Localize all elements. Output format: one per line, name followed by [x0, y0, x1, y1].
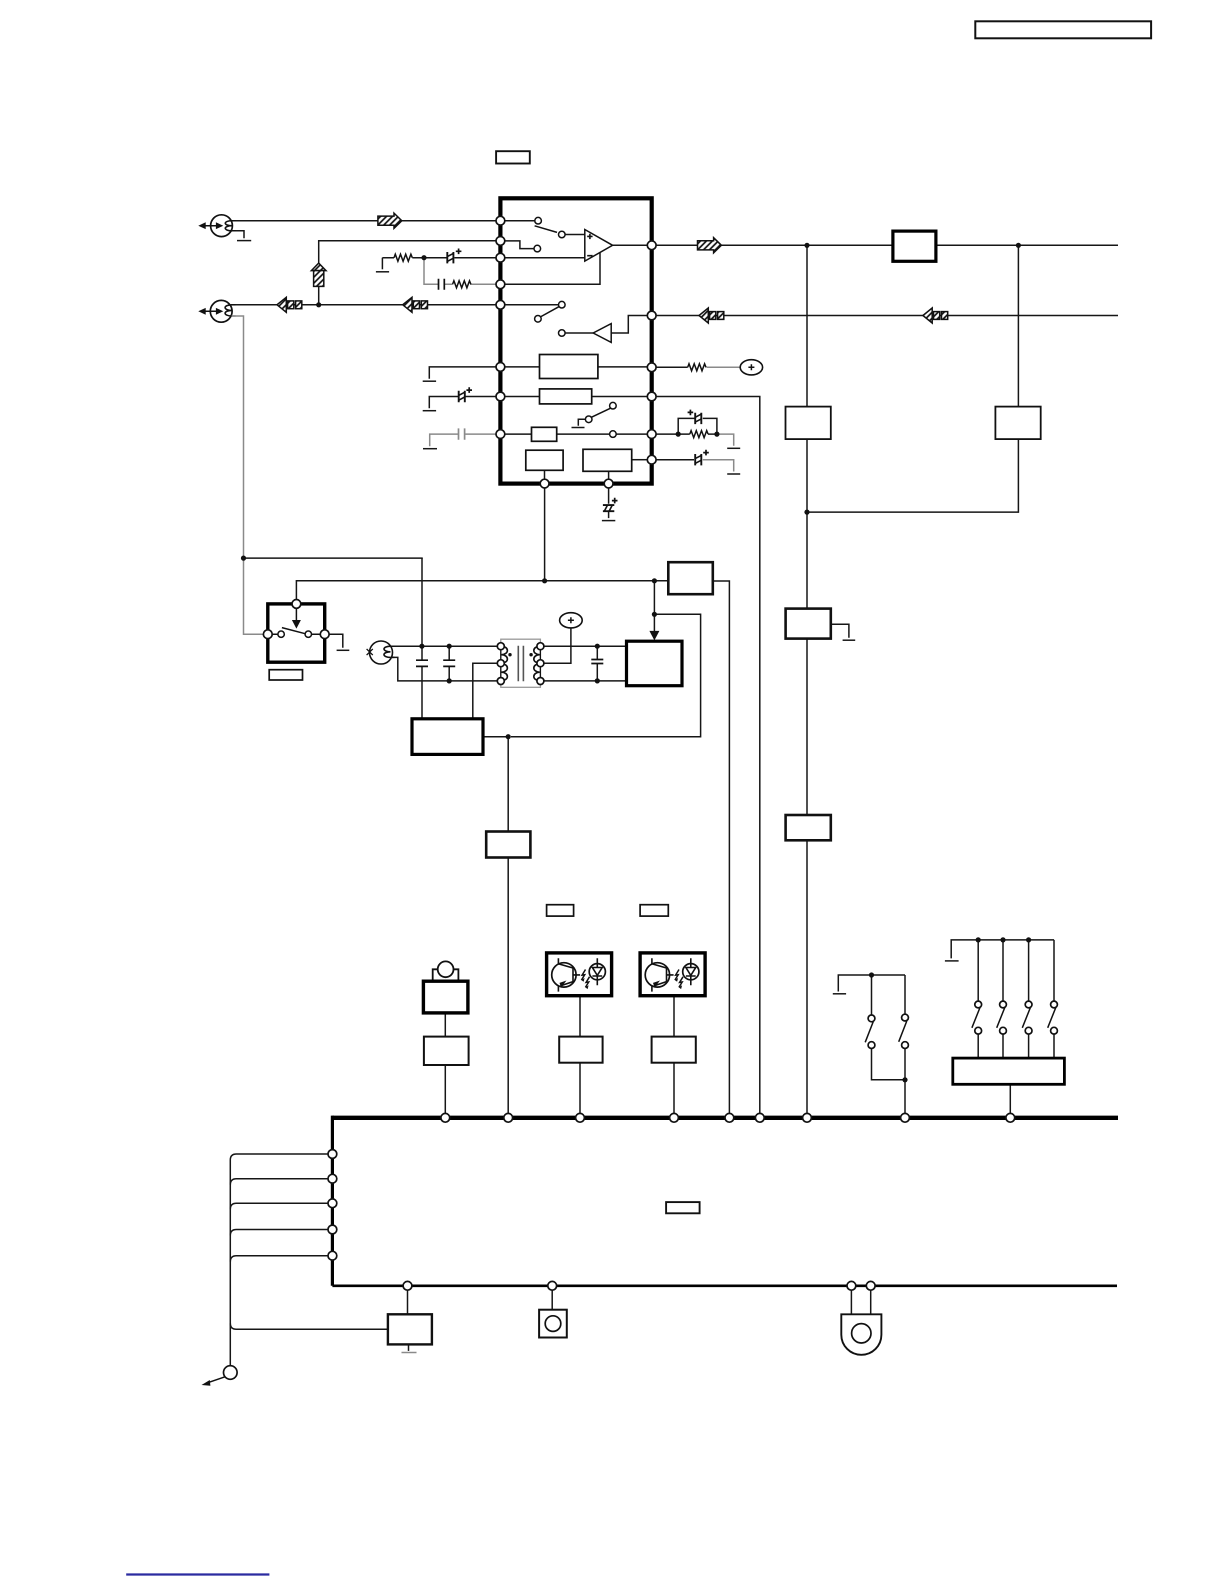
wire box B4 to IC bottom pin	[544, 470, 546, 479]
wire IC bottom pin1 down to hook line	[544, 488, 546, 581]
wire IC pin6 through box B1	[505, 366, 648, 368]
wire junction drop to C2 R2 branch	[424, 258, 496, 285]
wire PCB left pin 2	[230, 1179, 328, 1185]
pin switch SW1b top	[902, 1014, 909, 1021]
wire PCB left pin 5	[230, 1256, 328, 1262]
pin bus 7	[803, 1113, 812, 1122]
capacitor C4 at pin8	[459, 428, 465, 439]
ground G6	[602, 520, 615, 522]
buffer U2 triangle	[593, 324, 611, 343]
wire IC pin2 bent to switch S1 lower throw	[505, 241, 534, 249]
box DB2 surge	[412, 719, 483, 755]
pin hook switch left	[263, 630, 272, 639]
pin bus 5	[725, 1113, 734, 1122]
wire switch S1 pole to op-amp U1 + input	[565, 234, 585, 236]
box B5	[583, 449, 632, 471]
junction output line col2	[1016, 243, 1021, 248]
supply ellipse E2	[560, 613, 583, 628]
pin IC right 1	[647, 241, 656, 250]
junction SW1 rail	[869, 972, 874, 977]
arrow C1 hatched up on node A riser	[311, 263, 326, 286]
harness arrow to external	[202, 1366, 238, 1386]
arrow B2 hatched left on RING line	[403, 297, 428, 312]
ground G1	[237, 240, 251, 242]
junction hook line 2	[652, 578, 657, 583]
resistor R2	[453, 281, 471, 288]
wire IC pin to RC pair D2 R4	[656, 433, 717, 435]
arrow A2 hatched right on output line	[698, 238, 722, 253]
switch SW2a blade	[972, 1008, 980, 1028]
wire ringer top line to transformer T1	[391, 645, 497, 647]
transformer T1	[501, 639, 541, 687]
wire switch SW1b leads	[904, 975, 906, 1113]
capacitor D1 electrolytic	[447, 249, 461, 264]
wire IC pin8 left through capacitor C4 to ground	[430, 434, 496, 446]
wire vertical through capacitor C1 to diode bridge	[421, 558, 423, 719]
wire ringer bottom line to transformer T1	[391, 657, 497, 681]
capacitor C6	[443, 660, 455, 666]
wire box B5 to IC right pin	[632, 459, 648, 461]
wire switch SW2a leads	[977, 940, 979, 1058]
pin IC bottom 2	[604, 479, 613, 488]
wire switch SW2d leads	[1053, 940, 1055, 1058]
ground G5	[423, 448, 437, 450]
wire IC pin to capacitor D3	[656, 459, 694, 461]
pin PCB left 2	[328, 1174, 337, 1183]
wire node A riser (junction to up-arrow to corner)	[319, 241, 496, 305]
box R5d	[786, 815, 831, 840]
wire TIP line (connector J1 to IC pin 1)	[232, 220, 496, 222]
pin bus 4	[670, 1113, 679, 1122]
wire PCB bottom pin to ground box	[407, 1290, 409, 1314]
pin transformer L1	[497, 643, 504, 650]
pin IC left 4	[496, 280, 505, 289]
junction C6b top	[447, 644, 452, 649]
pin switch SW2b top	[1000, 1001, 1007, 1008]
arrow A1 hatched right on TIP line	[378, 213, 402, 228]
pin switch SW2d bottom	[1051, 1027, 1058, 1034]
pin IC left 5	[496, 300, 505, 309]
junction C7 bottom	[595, 678, 600, 683]
pin hook switch top	[292, 600, 301, 609]
junction C7 top	[595, 644, 600, 649]
wire ground box stub	[408, 1344, 410, 1351]
junction D2R4 right	[714, 432, 719, 437]
pin switch SW2c bottom	[1025, 1027, 1032, 1034]
wire RC to ground	[717, 434, 734, 446]
pin PCB bottom 1	[403, 1281, 412, 1290]
microphone MIC1	[433, 961, 459, 981]
switch SW2c blade	[1022, 1008, 1030, 1028]
pin hook switch right	[320, 630, 329, 639]
wire switch SW1a leads	[872, 975, 906, 1080]
wire connector J2 drop to hook switch	[232, 316, 263, 634]
junction node A	[316, 302, 321, 307]
pin IC right 4	[647, 392, 656, 401]
wire branch at node B to ringer line	[244, 557, 423, 560]
box R5c with ground	[786, 609, 831, 639]
PCB block main board	[332, 1116, 1118, 1286]
wire PCB bottom pins to buzzer BZ1	[851, 1290, 870, 1314]
pin bus 6	[755, 1113, 764, 1122]
pin IC right 3	[647, 363, 656, 372]
wire box R5 to ground	[831, 624, 849, 638]
wire PCB left pin 1 to collector line	[230, 1154, 328, 1366]
wire junction down through box R6 to bus	[507, 737, 509, 1114]
capacitor C7	[591, 660, 603, 664]
junction C6 top	[419, 644, 424, 649]
tick bar of switch S3	[572, 427, 585, 429]
label box N6 top right	[975, 21, 1151, 38]
wire transformer T1 primary center tap to bridge	[473, 663, 498, 719]
wire transformer T1 secondary top to balance box	[544, 645, 627, 647]
wire loop from balance feed to bridge output	[511, 614, 701, 736]
pin switch SW2d top	[1051, 1001, 1058, 1008]
pin IC left 3	[496, 253, 505, 262]
pin PCB left 3	[328, 1199, 337, 1208]
wire IC pin long drop to bus	[656, 397, 760, 1114]
wire capacitor C6 leads	[448, 646, 450, 681]
wire PCB left pin 4	[230, 1230, 328, 1236]
ground G9	[843, 639, 856, 641]
box R5a	[786, 407, 831, 440]
switch SW1b blade	[899, 1021, 907, 1042]
hook switch HS1	[268, 604, 325, 662]
junction D2R4 left	[676, 432, 681, 437]
ground G12	[945, 960, 959, 962]
wire buffer U2 output to IC pin	[611, 316, 647, 334]
box R5b	[995, 407, 1040, 440]
capacitor C3 electrolytic at pin7	[459, 387, 472, 402]
wire op-amp U1 output to IC pin	[613, 244, 648, 246]
supply ellipse E1	[740, 360, 762, 375]
wire R1 to junction to capacitor D1	[382, 257, 496, 259]
ground G10	[337, 649, 350, 651]
connector J2	[198, 300, 235, 322]
resistor R1	[394, 254, 412, 261]
pin IC left 7	[496, 392, 505, 401]
pin switch SW2a top	[975, 1001, 982, 1008]
ringer BZ0	[367, 641, 395, 664]
pin PCB bottom 4	[866, 1281, 875, 1290]
ground G11	[833, 993, 846, 995]
switch SW1a blade	[865, 1022, 873, 1043]
wire IC line 2 to right edge	[656, 315, 1118, 317]
pin switch SW2a bottom	[975, 1027, 982, 1034]
wire IC pin1 to switch S1	[505, 220, 535, 222]
capacitor C1 on ringer drop	[416, 660, 428, 666]
wire op-amp U1 feedback to IC pin4	[505, 253, 600, 285]
footer rule	[126, 1573, 269, 1575]
pin switch SW2b bottom	[1000, 1027, 1007, 1034]
wire IC pin5 to switch S2	[505, 304, 559, 306]
switch S1	[534, 217, 565, 252]
optocoupler PC2	[640, 953, 705, 996]
wire IC pin3 to op-amp U1 - input	[505, 257, 585, 259]
wire transformer T1 secondary bottom to balance box	[544, 680, 627, 682]
wire connector J1 sleeve to ground	[232, 231, 245, 239]
label box N5	[666, 1202, 700, 1213]
arrow B4 hatched left on line 2	[923, 308, 948, 323]
pin switch SW1b bottom	[902, 1042, 909, 1049]
switch S3	[585, 402, 616, 437]
wire RING line (connector J2 to IC pin 5)	[232, 304, 496, 306]
pin bus 1	[441, 1113, 450, 1122]
keypad box KB1	[953, 1058, 1065, 1084]
wire tap to ground box G13	[230, 1323, 388, 1329]
ground G3	[423, 380, 436, 382]
pin PCB left 4	[328, 1225, 337, 1234]
junction node B	[241, 556, 246, 561]
ground G13	[402, 1352, 417, 1354]
label box N4	[640, 905, 668, 916]
wire IC pin7 through box B2	[505, 396, 648, 398]
optocoupler PC1	[547, 953, 612, 996]
pin transformer R2	[537, 660, 544, 667]
pin bus 2	[504, 1113, 513, 1122]
box B1	[540, 355, 598, 379]
box R6	[486, 832, 530, 858]
junction SW2 rail a	[976, 937, 981, 942]
capacitor C5 electrolytic below IC	[603, 498, 618, 511]
wire ground stub of R1 network	[381, 258, 383, 270]
pin switch SW1a bottom	[868, 1042, 875, 1049]
box B3	[532, 427, 557, 441]
wire switch S2 to buffer U2 input	[565, 332, 593, 334]
pin transformer R3	[537, 678, 544, 685]
wire IC pin8 through box B3 and throw circle	[505, 433, 648, 435]
box B2	[540, 389, 592, 404]
pin bus 3	[576, 1113, 585, 1122]
junction SW1 bottom	[902, 1077, 907, 1082]
wire hook switch right pin to ground	[327, 634, 343, 648]
wire supply E2 ellipse to transformer center tap	[544, 628, 571, 663]
box U4	[652, 1037, 696, 1063]
buzzer BZ1	[841, 1314, 881, 1355]
wire right column 1 through boxes to bus	[806, 245, 808, 1113]
wire speech network box bottom leads	[444, 1012, 446, 1113]
pin IC bottom 1	[540, 479, 549, 488]
junction C6b bottom	[447, 678, 452, 683]
resistor R4	[690, 431, 708, 438]
IC U1 main hybrid block	[500, 198, 651, 483]
ground G4	[423, 410, 436, 412]
wire capacitor C7 leads	[596, 646, 598, 681]
pin PCB bottom 2	[548, 1281, 557, 1290]
label box N3	[547, 905, 574, 916]
ground G7	[727, 447, 740, 449]
pin transformer L3	[497, 678, 504, 685]
box S1a	[423, 981, 468, 1013]
wire switch S3 pole stub to tick	[578, 419, 585, 425]
wire IC pin to resistor R3	[656, 366, 688, 368]
arrow B1 hatched left on RING line	[277, 297, 302, 312]
box P1 bold on output line	[893, 231, 936, 261]
junction output line col1	[804, 243, 809, 248]
capacitor D2 electrolytic	[688, 410, 702, 425]
pin bus 8	[901, 1113, 910, 1122]
pin PCB bottom 3	[847, 1281, 856, 1290]
wire capacitor D3 to ground	[703, 460, 734, 472]
wire opto PC2 to box U4 to bus	[673, 996, 675, 1114]
wire arrow feed into balance network	[653, 581, 655, 634]
wire switch SW2c leads	[1028, 940, 1030, 1058]
wire switch group SW2 top rail	[951, 940, 1054, 959]
switch SW2d blade	[1048, 1008, 1056, 1028]
label box N1	[496, 151, 530, 163]
wire box B5 to IC bottom pin	[608, 471, 610, 479]
wire relay box E2 to bus	[713, 581, 730, 1113]
wire IC pin7 left through capacitor C3 to ground	[429, 397, 496, 409]
wire switch SW2b leads	[1002, 940, 1004, 1058]
wire keypad box to bus	[1009, 1084, 1011, 1113]
wire PCB left pin 3	[230, 1203, 328, 1209]
resistor R3	[688, 364, 706, 371]
pin IC left 2	[496, 237, 505, 246]
junction hook line 1	[542, 578, 547, 583]
ground G2	[376, 271, 389, 273]
pin transformer R1	[537, 643, 544, 650]
connector J1	[198, 215, 235, 237]
LED indicator box L1	[539, 1310, 567, 1338]
pin PCB left 5	[328, 1251, 337, 1260]
wire resistor R3 to supply E1	[707, 366, 741, 368]
junction bridge output	[506, 734, 511, 739]
pin IC right 5	[647, 430, 656, 439]
arrowhead into balance network	[649, 631, 659, 641]
pin IC left 8	[496, 430, 505, 439]
switch SW2b blade	[997, 1008, 1005, 1028]
pin IC left 1	[496, 216, 505, 225]
wire right column 2 through box to cross tie	[807, 245, 1018, 512]
pin switch SW1a top	[868, 1015, 875, 1022]
junction balance feed	[652, 612, 657, 617]
box B4	[526, 450, 563, 470]
arrow B3 hatched left on line 2	[699, 308, 724, 323]
capacitor C2	[439, 279, 445, 290]
box E2 relay	[668, 562, 713, 594]
pin PCB left 1	[328, 1150, 337, 1159]
wire switch group SW1 top rail and ground stub	[838, 975, 905, 992]
pin switch SW2c top	[1025, 1001, 1032, 1008]
wire IC output line 1 to right edge	[656, 244, 1118, 246]
diode bridge box DB1	[627, 641, 683, 686]
pin IC right 2	[647, 311, 656, 320]
junction SW2 rail b	[1000, 937, 1005, 942]
switch S2	[535, 301, 565, 336]
wire PCB bottom pin to LED box	[551, 1290, 553, 1310]
box U3	[559, 1037, 602, 1063]
junction R1-D1	[421, 255, 426, 260]
label box N2	[269, 670, 302, 680]
pin bus 9	[1006, 1113, 1015, 1122]
wire diode bridge output to junction	[483, 736, 508, 738]
pin IC right 6	[647, 455, 656, 464]
ground G8	[727, 473, 740, 475]
junction SW2 rail c	[1026, 937, 1031, 942]
junction col cross tie	[804, 509, 809, 514]
capacitor D3 electrolytic	[695, 450, 709, 466]
box S1b	[424, 1037, 469, 1065]
wire IC bottom pin2 through capacitor C5 to ground	[608, 488, 610, 518]
pin transformer L2	[497, 660, 504, 667]
wire opto PC1 to box U3 to bus	[579, 996, 581, 1114]
wire hook switch to relay box E2	[296, 581, 668, 600]
pin IC left 6	[496, 363, 505, 372]
op-amp U1a	[585, 230, 613, 262]
wire IC pin6 left to ground	[429, 367, 496, 379]
ground box G14	[388, 1314, 432, 1344]
wire RC top branch through capacitor D2	[678, 418, 717, 434]
